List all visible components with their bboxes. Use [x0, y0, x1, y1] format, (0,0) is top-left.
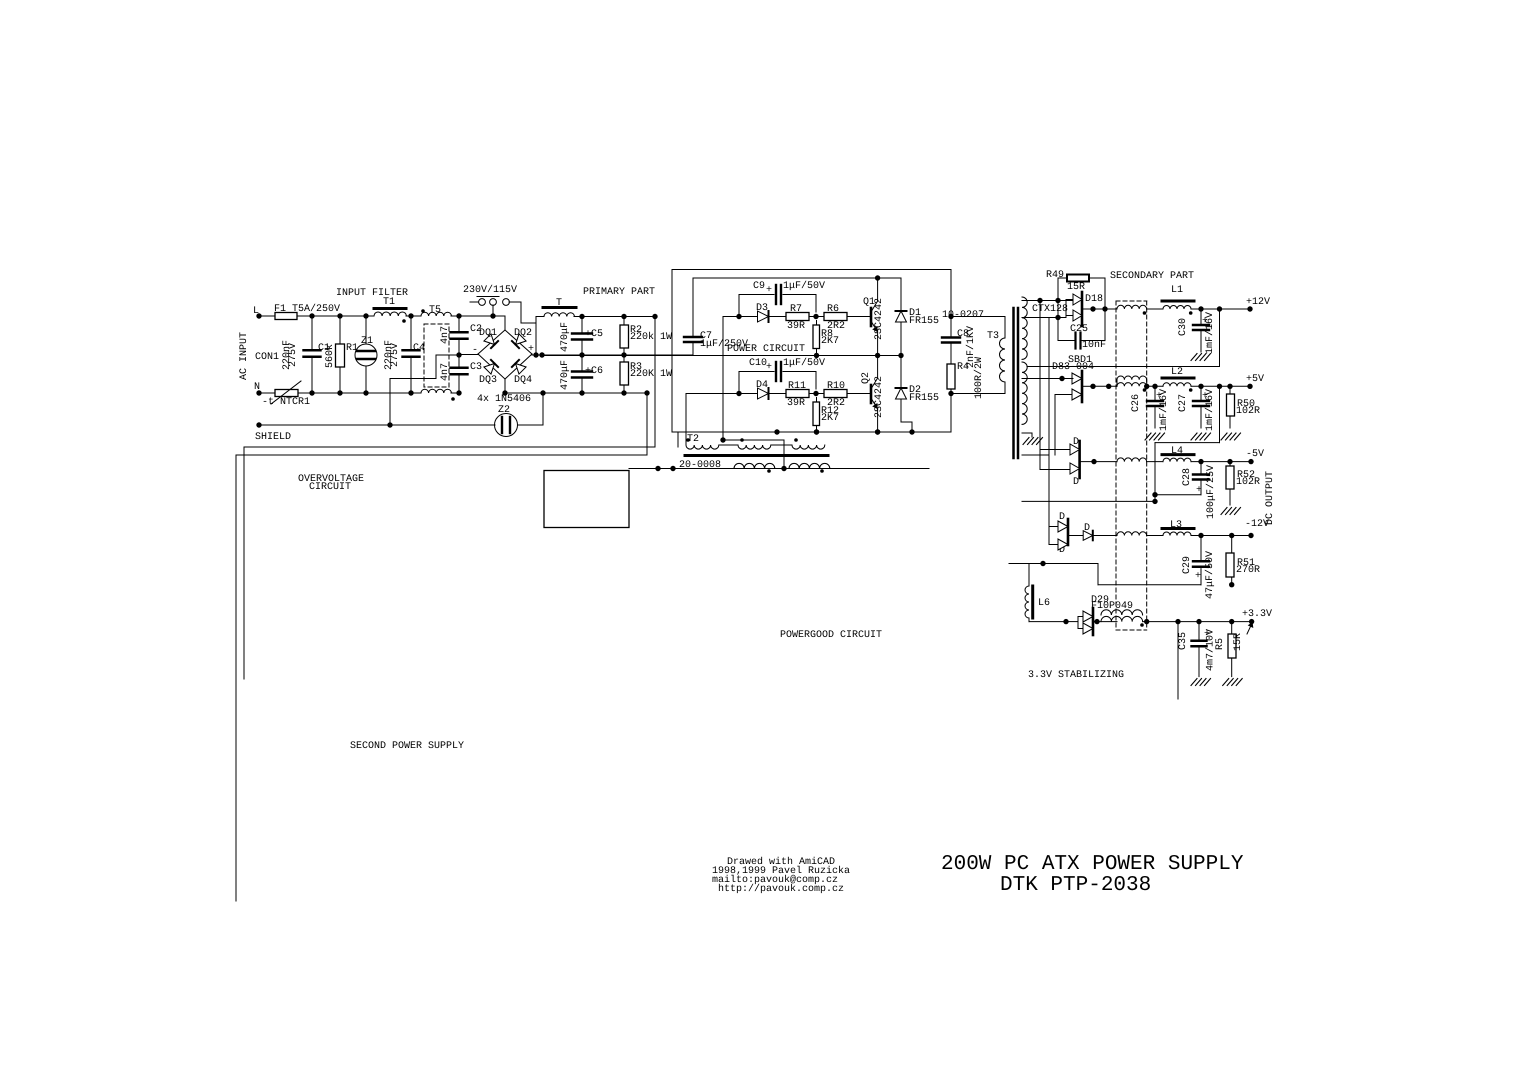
svg-text:220K: 220K — [630, 369, 654, 380]
svg-text:-t: -t — [262, 397, 274, 408]
svg-text:100R/2W: 100R/2W — [973, 357, 985, 399]
shield wire — [259, 424, 495, 426]
svg-text:270R: 270R — [1236, 565, 1260, 576]
svg-text:T3: T3 — [987, 331, 999, 342]
svg-text:CON1: CON1 — [255, 352, 279, 363]
-12V filter winding — [1117, 532, 1147, 536]
svg-text:+12V: +12V — [1246, 297, 1270, 308]
svg-text:DQ3: DQ3 — [479, 375, 497, 386]
svg-text:100μF/25V: 100μF/25V — [1205, 465, 1217, 519]
svg-text:L1: L1 — [1171, 285, 1183, 296]
svg-text:C35: C35 — [1178, 632, 1189, 650]
+12V rail — [1191, 308, 1250, 310]
svg-text:15R: 15R — [1233, 633, 1244, 651]
svg-text:CTX128: CTX128 — [1032, 304, 1068, 315]
-5V rail — [1191, 461, 1251, 463]
resistor R1 — [339, 316, 341, 344]
svg-text:2R2: 2R2 — [827, 321, 845, 332]
svg-text:102R: 102R — [1236, 406, 1260, 417]
svg-text:C9: C9 — [753, 281, 765, 292]
svg-text:-5V: -5V — [1246, 449, 1264, 460]
capacitor C5 — [581, 317, 583, 334]
svg-text:FR155: FR155 — [909, 393, 939, 404]
svg-text:F1 T5A/250V: F1 T5A/250V — [274, 303, 340, 315]
fuse F1 — [275, 313, 297, 320]
+12V filter winding — [1117, 305, 1147, 309]
svg-text:39R: 39R — [787, 398, 805, 409]
capacitor C6 — [581, 355, 583, 371]
T3 taps — [1022, 300, 1040, 302]
svg-text:C4: C4 — [413, 343, 425, 354]
wire to power circuit — [654, 317, 656, 448]
svg-text:+C5: +C5 — [585, 329, 603, 340]
svg-text:C25: C25 — [1070, 324, 1088, 335]
svg-text:SECONDARY PART: SECONDARY PART — [1110, 271, 1194, 282]
capacitor C35 — [1198, 622, 1200, 640]
svg-text:F10P049: F10P049 — [1091, 601, 1133, 612]
svg-text:+: + — [528, 344, 534, 355]
svg-text:DQ4: DQ4 — [514, 375, 532, 386]
svg-text:2K7: 2K7 — [821, 413, 839, 424]
wire L — [309, 313, 314, 318]
svg-text:2SC4242: 2SC4242 — [874, 376, 885, 418]
+3.3V filter winding — [1101, 610, 1143, 615]
svg-text:DQ2: DQ2 — [514, 328, 532, 339]
svg-text:NTCR1: NTCR1 — [280, 397, 310, 408]
svg-text:L6: L6 — [1038, 598, 1050, 609]
svg-text:39R: 39R — [787, 321, 805, 332]
svg-text:220k: 220k — [630, 331, 654, 343]
resistor R8 — [816, 321, 818, 326]
+3.3V rail — [1178, 621, 1252, 623]
svg-text:+C6: +C6 — [585, 366, 603, 377]
resistor R50 — [1229, 386, 1231, 394]
svg-text:C28: C28 — [1182, 468, 1193, 486]
resistor R3 — [623, 355, 625, 362]
-12V rail — [1191, 535, 1251, 537]
svg-text:4n7: 4n7 — [440, 363, 451, 381]
transformer T3 core — [1012, 308, 1015, 458]
capacitor C25 — [1082, 308, 1093, 310]
svg-text:DC OUTPUT: DC OUTPUT — [1265, 471, 1276, 525]
wire N — [309, 390, 314, 395]
svg-text:1μF/50V: 1μF/50V — [783, 357, 825, 369]
svg-text:-12V: -12V — [1245, 519, 1269, 530]
svg-text:DQ1: DQ1 — [479, 328, 497, 339]
capacitor C1 — [311, 316, 313, 350]
wire to 447 line — [677, 432, 679, 447]
transformer T3 secondary winding — [1022, 297, 1027, 359]
capacitor C7 — [692, 278, 694, 336]
resistor R52 — [1229, 462, 1231, 466]
svg-text:C3: C3 — [470, 362, 482, 373]
wire N to frame — [579, 390, 584, 395]
svg-text:102R: 102R — [1236, 477, 1260, 488]
diode D2 — [900, 356, 902, 389]
svg-text:T1: T1 — [383, 297, 395, 308]
svg-text:R49: R49 — [1046, 270, 1064, 281]
svg-text:10-0207: 10-0207 — [942, 310, 984, 321]
svg-text:4n7: 4n7 — [440, 326, 451, 344]
capacitor C2 — [458, 316, 460, 332]
capacitor C29 — [1200, 536, 1202, 561]
+5V return — [1219, 386, 1221, 442]
svg-text:1W: 1W — [660, 332, 672, 343]
svg-text:230V/115V: 230V/115V — [463, 284, 517, 296]
svg-text:R6: R6 — [827, 304, 839, 315]
svg-text:275V: 275V — [390, 343, 401, 367]
svg-text:+5V: +5V — [1246, 374, 1264, 385]
svg-text:10nF: 10nF — [1082, 340, 1106, 351]
svg-text:3.3V STABILIZING: 3.3V STABILIZING — [1028, 670, 1124, 681]
varistor Z1 — [365, 316, 367, 344]
svg-text:D83-004: D83-004 — [1052, 362, 1094, 373]
svg-text:1mF/16V: 1mF/16V — [1204, 312, 1216, 354]
wire T2 center tap — [722, 317, 724, 441]
bridge rectifier DQ1-DQ4 — [505, 330, 532, 354]
svg-text:R5: R5 — [1215, 638, 1226, 650]
resistor R5 — [1231, 622, 1233, 634]
svg-text:Q2: Q2 — [861, 372, 872, 384]
svg-text:R11: R11 — [788, 381, 806, 392]
svg-text:20-0008: 20-0008 — [679, 460, 721, 471]
thermistor NTCR1 — [275, 390, 298, 397]
resistor R7 — [786, 313, 809, 321]
svg-text:C29: C29 — [1182, 556, 1193, 574]
diode D1 — [900, 278, 902, 311]
svg-text:D: D — [1073, 477, 1079, 488]
resistor R2 — [623, 317, 625, 326]
power circuit frame — [672, 269, 951, 271]
svg-text:T5: T5 — [429, 305, 441, 316]
control circuit box — [544, 471, 629, 528]
capacitor C26 — [1154, 386, 1156, 400]
svg-text:R1: R1 — [346, 343, 358, 354]
svg-text:+: + — [1195, 571, 1201, 582]
resistor R4 — [950, 344, 952, 364]
capacitor C3 — [458, 355, 460, 368]
svg-text:2K7: 2K7 — [821, 336, 839, 347]
svg-text:Z1: Z1 — [361, 336, 373, 347]
svg-text:470μF: 470μF — [560, 360, 571, 390]
svg-text:200W PC ATX POWER SUPPLY: 200W PC ATX POWER SUPPLY — [941, 853, 1244, 876]
rail above IC1 — [629, 468, 929, 470]
svg-text:PRIMARY PART: PRIMARY PART — [583, 287, 655, 298]
capacitor C4 — [410, 316, 412, 350]
capacitor C27 — [1200, 386, 1202, 400]
resistor R51 — [1231, 536, 1233, 554]
svg-text:C30: C30 — [1178, 318, 1189, 336]
capacitor C30 — [1200, 309, 1202, 324]
mid rail from bridge — [532, 354, 693, 356]
capacitor C28 — [1200, 462, 1202, 473]
bottom rail — [672, 431, 951, 433]
svg-text:4x 1N5406: 4x 1N5406 — [477, 394, 531, 405]
svg-text:SHIELD: SHIELD — [255, 432, 291, 443]
+12V return — [1219, 309, 1221, 367]
svg-text:2R2: 2R2 — [827, 398, 845, 409]
svg-text:C27: C27 — [1178, 394, 1189, 412]
svg-text:D: D — [1059, 512, 1065, 523]
svg-text:47μF/50V: 47μF/50V — [1204, 551, 1216, 599]
svg-text:POWERGOOD CIRCUIT: POWERGOOD CIRCUIT — [780, 630, 882, 641]
mid rail — [542, 355, 901, 357]
resistor R6 — [824, 313, 847, 321]
shield route from T5 — [390, 378, 436, 380]
svg-text:INPUT FILTER: INPUT FILTER — [336, 288, 408, 299]
svg-text:POWER CIRCUIT: POWER CIRCUIT — [727, 344, 805, 355]
svg-text:C26: C26 — [1131, 394, 1142, 412]
+5V rail — [1191, 385, 1250, 387]
svg-text:SECOND POWER SUPPLY: SECOND POWER SUPPLY — [350, 741, 464, 752]
svg-text:1mF/16V: 1mF/16V — [1158, 389, 1170, 431]
svg-text:+3.3V: +3.3V — [1242, 609, 1272, 620]
svg-text:AC INPUT: AC INPUT — [239, 332, 250, 380]
svg-text:R4: R4 — [957, 362, 969, 373]
svg-text:470μF: 470μF — [560, 322, 571, 352]
-5V filter winding — [1117, 458, 1147, 462]
svg-text:L2: L2 — [1171, 367, 1183, 378]
transformer 20-0008 secondary — [734, 463, 775, 468]
svg-text:1W: 1W — [660, 369, 672, 380]
T3 ground tap — [1022, 432, 1032, 434]
svg-text:http://pavouk.comp.cz: http://pavouk.comp.cz — [718, 883, 844, 895]
svg-text:C10: C10 — [749, 358, 767, 369]
resistor R10 — [824, 390, 847, 398]
-12V return — [1097, 564, 1099, 585]
svg-text:R10: R10 — [827, 381, 845, 392]
wire 3.3V sense — [1177, 622, 1179, 699]
svg-text:D18: D18 — [1085, 294, 1103, 305]
svg-text:275V: 275V — [288, 343, 299, 367]
resistor R12 — [816, 398, 818, 403]
svg-text:560k: 560k — [324, 344, 336, 368]
svg-text:DTK PTP-2038: DTK PTP-2038 — [1000, 874, 1151, 897]
svg-text:R7: R7 — [790, 304, 802, 315]
+5V filter winding — [1117, 376, 1147, 380]
svg-text:1mF/16V: 1mF/16V — [1204, 389, 1216, 431]
left frame wires — [243, 447, 245, 679]
svg-text:Z2: Z2 — [498, 405, 510, 416]
svg-text:1μF/50V: 1μF/50V — [783, 280, 825, 292]
svg-text:FR155: FR155 — [909, 316, 939, 327]
svg-text:CIRCUIT: CIRCUIT — [309, 482, 351, 493]
resistor R11 — [786, 390, 809, 398]
dashed transformer box — [1116, 300, 1147, 302]
inner rail top — [693, 277, 901, 279]
wire N return — [646, 393, 648, 455]
